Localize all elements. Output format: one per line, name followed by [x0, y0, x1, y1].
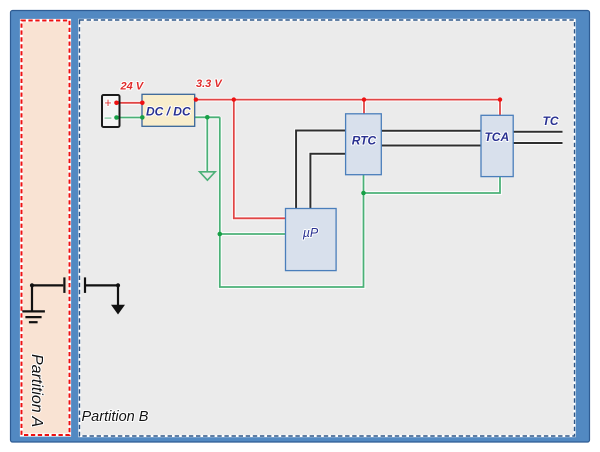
- svg-text:DC / DC: DC / DC: [146, 104, 191, 118]
- svg-text:24 V: 24 V: [120, 80, 145, 92]
- svg-text:TCA: TCA: [484, 130, 509, 144]
- svg-text:TC: TC: [543, 114, 559, 128]
- svg-text:–: –: [105, 110, 112, 124]
- svg-text:Partition A: Partition A: [28, 354, 45, 427]
- svg-text:µP: µP: [303, 226, 319, 240]
- svg-text:+: +: [104, 96, 111, 110]
- svg-text:RTC: RTC: [352, 134, 377, 148]
- svg-text:Partition B: Partition B: [82, 409, 149, 425]
- svg-text:3.3 V: 3.3 V: [196, 78, 223, 90]
